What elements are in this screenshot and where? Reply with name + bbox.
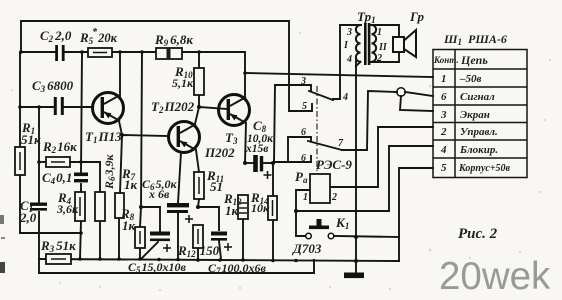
svg-text:3: 3 <box>346 27 352 38</box>
svg-text:Блокир.: Блокир. <box>459 144 498 156</box>
svg-text:1к: 1к <box>124 177 138 192</box>
svg-text:6: 6 <box>441 91 447 103</box>
svg-text:Тр1: Тр1 <box>357 9 376 25</box>
svg-text:5: 5 <box>302 101 307 112</box>
svg-text:3: 3 <box>440 109 447 121</box>
svg-text:Сигнал: Сигнал <box>460 91 495 103</box>
svg-text:R351к: R351к <box>40 238 76 254</box>
svg-text:Т3: Т3 <box>225 130 238 146</box>
svg-text:1: 1 <box>377 27 382 38</box>
svg-text:R63,9к: R63,9к <box>102 153 117 190</box>
svg-text:C22,0: C22,0 <box>40 28 72 44</box>
svg-text:1к: 1к <box>122 218 136 233</box>
svg-text:2: 2 <box>376 53 382 64</box>
svg-text:х 6в: х 6в <box>148 187 170 201</box>
svg-text:С40,1: С40,1 <box>42 170 72 186</box>
svg-text:II: II <box>378 42 388 53</box>
svg-text:10к: 10к <box>251 201 270 215</box>
svg-text:С515,0х10в: С515,0х10в <box>128 260 187 275</box>
svg-text:–50в: –50в <box>459 73 482 85</box>
svg-text:4: 4 <box>440 144 447 156</box>
svg-text:С8: С8 <box>253 118 267 134</box>
svg-text:х15в: х15в <box>245 143 268 155</box>
svg-text:51к: 51к <box>21 132 41 147</box>
svg-text:3: 3 <box>300 76 306 87</box>
svg-text:П202: П202 <box>204 145 235 160</box>
svg-text:Рис. 2: Рис. 2 <box>458 226 498 242</box>
svg-text:4: 4 <box>346 54 352 65</box>
svg-text:Ш1РША-6: Ш1РША-6 <box>443 32 507 47</box>
svg-text:1: 1 <box>441 73 447 85</box>
svg-text:R5*20к: R5*20к <box>79 27 118 46</box>
svg-text:Ра: Ра <box>295 169 308 185</box>
svg-text:Корпус+50в: Корпус+50в <box>458 163 511 174</box>
svg-text:R96,8к: R96,8к <box>154 32 193 48</box>
svg-text:7: 7 <box>338 138 344 149</box>
svg-text:Гр: Гр <box>409 9 424 24</box>
svg-text:1: 1 <box>303 192 308 203</box>
svg-text:Конт.: Конт. <box>433 55 459 65</box>
svg-text:6: 6 <box>301 127 306 138</box>
svg-text:С7100,0х6в: С7100,0х6в <box>208 261 267 276</box>
svg-text:Т2П202: Т2П202 <box>151 99 195 115</box>
svg-text:Управл.: Управл. <box>460 126 498 138</box>
svg-text:3,6к: 3,6к <box>56 202 79 216</box>
svg-text:2,0: 2,0 <box>19 210 37 225</box>
svg-text:C36800: C36800 <box>32 78 74 94</box>
svg-text:5: 5 <box>441 162 447 174</box>
svg-text:Д703: Д703 <box>292 241 322 256</box>
svg-text:I: I <box>343 40 349 51</box>
svg-text:20wek: 20wek <box>439 255 551 298</box>
svg-text:Т1П13: Т1П13 <box>85 129 122 145</box>
svg-text:1к: 1к <box>225 203 239 218</box>
svg-text:51: 51 <box>210 179 223 194</box>
svg-text:Цепь: Цепь <box>460 53 488 67</box>
svg-text:4: 4 <box>342 92 348 103</box>
svg-text:2: 2 <box>440 126 447 138</box>
svg-text:К1: К1 <box>335 215 349 231</box>
svg-text:Экран: Экран <box>460 109 490 121</box>
svg-text:5,1к: 5,1к <box>172 76 194 90</box>
svg-text:R216к: R216к <box>42 139 77 155</box>
svg-text:РЭС-9: РЭС-9 <box>316 157 352 172</box>
svg-text:6: 6 <box>301 153 306 164</box>
svg-text:2: 2 <box>331 192 337 203</box>
